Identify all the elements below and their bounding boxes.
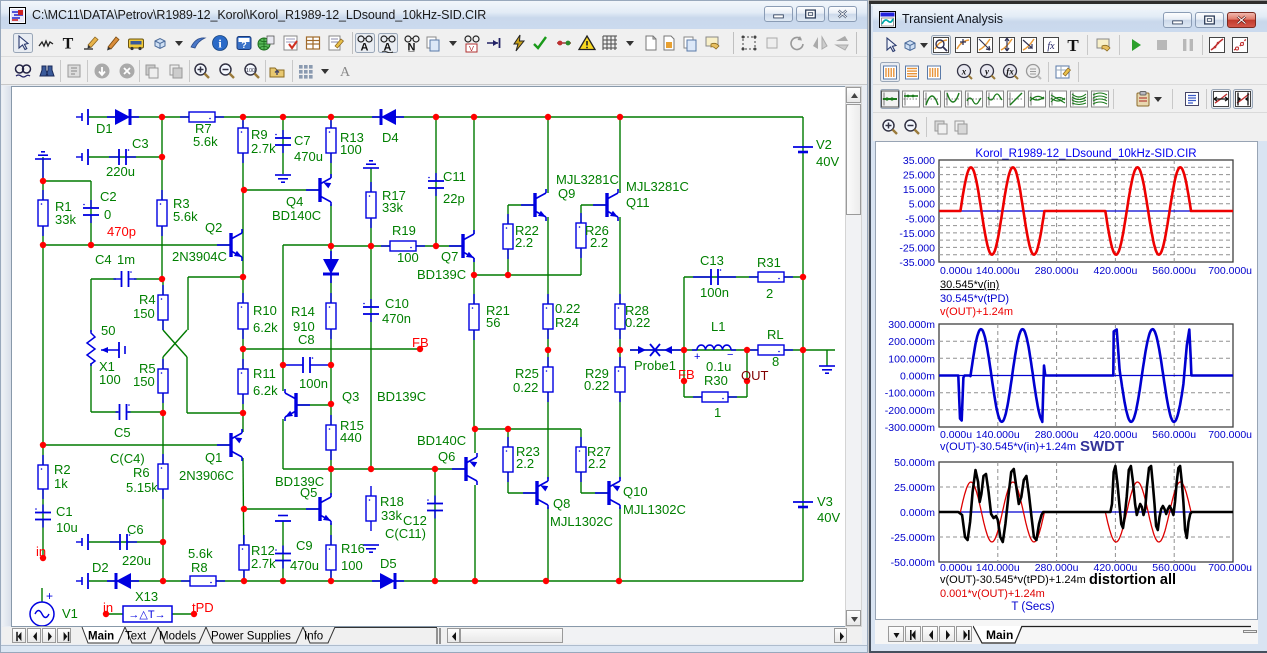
svg-text:BD140C: BD140C — [417, 433, 466, 448]
svg-text:→△T→: →△T→ — [128, 609, 165, 621]
svg-text:R11: R11 — [253, 366, 276, 381]
junction (474,117) — [471, 114, 477, 120]
label BD139C — [417, 267, 466, 282]
wire Q4 collector link — [283, 244, 331, 246]
label R26 — [585, 223, 609, 238]
capacitor C6 — [110, 534, 137, 550]
svg-text:C2: C2 — [100, 189, 117, 204]
wire R10 column — [242, 277, 244, 349]
svg-text:-5.000: -5.000 — [905, 213, 935, 225]
wire Q7 collector — [473, 117, 475, 234]
svg-text:R18: R18 — [380, 494, 404, 509]
label 100n — [700, 285, 729, 300]
svg-text:200.000m: 200.000m — [888, 336, 935, 348]
svg-text:280.000u: 280.000u — [1035, 429, 1079, 441]
junction (684,350) — [681, 347, 687, 353]
svg-text:BD139C: BD139C — [417, 267, 466, 282]
label R3 — [173, 196, 190, 211]
svg-text:140.000u: 140.000u — [976, 265, 1020, 277]
junction (747,381) — [744, 378, 750, 384]
svg-text:33k: 33k — [381, 508, 402, 523]
junction (331,581) — [328, 578, 334, 584]
svg-text:C7: C7 — [294, 133, 311, 148]
svg-text:140.000u: 140.000u — [976, 562, 1020, 574]
svg-text:0.000u: 0.000u — [940, 265, 972, 277]
label 2.7k — [251, 141, 276, 156]
battery terminal (C6 input) — [76, 534, 88, 550]
svg-text:0: 0 — [104, 207, 111, 222]
svg-text:C10: C10 — [385, 296, 409, 311]
label 470u — [294, 149, 323, 164]
junction (435,469) — [432, 466, 438, 472]
label Q1 — [205, 450, 222, 465]
junction (43,445) — [40, 442, 46, 448]
transistor Q8 — [523, 477, 548, 509]
label C8 — [298, 332, 315, 347]
junction (475,429) — [472, 426, 478, 432]
label Q5 — [300, 485, 317, 500]
svg-text:6.2k: 6.2k — [253, 383, 278, 398]
label 1m — [117, 252, 135, 267]
label 56 — [486, 315, 500, 330]
wire R5 bottom — [162, 357, 164, 413]
svg-text:v(OUT)-30.545*v(in)+1.24m: v(OUT)-30.545*v(in)+1.24m — [940, 441, 1076, 453]
svg-text:5.6k: 5.6k — [188, 546, 213, 561]
wire R1/C2 top link — [43, 180, 91, 182]
resistor R4 — [158, 285, 168, 330]
svg-text:50.000m: 50.000m — [894, 457, 935, 469]
label 0.22 — [625, 315, 650, 330]
svg-text:Q5: Q5 — [300, 485, 317, 500]
junction (163,542) — [160, 539, 166, 545]
label 100 — [397, 250, 419, 265]
right window: Transient Analysis — [869, 0, 1267, 653]
label C6 — [127, 522, 144, 537]
svg-text:MJL1302C: MJL1302C — [623, 502, 686, 517]
label Q10 — [623, 484, 648, 499]
svg-text:MJL3281C: MJL3281C — [626, 179, 689, 194]
resistor R26 — [576, 213, 586, 258]
wire Q11 collector — [619, 117, 621, 193]
diode D4 — [372, 109, 404, 125]
label R2 — [54, 462, 71, 477]
diode D5 — [372, 573, 404, 589]
svg-text:100: 100 — [397, 250, 419, 265]
label 2.2 — [588, 456, 606, 471]
label 33k — [55, 212, 76, 227]
junction (244,581) — [241, 578, 247, 584]
wire output row — [630, 349, 803, 351]
svg-text:470n: 470n — [382, 311, 411, 326]
ground (under R18) — [363, 545, 379, 552]
junction (371,246) — [368, 243, 374, 249]
svg-text:0.000m: 0.000m — [900, 371, 935, 383]
resistor R23 — [503, 437, 513, 482]
junction (331,246) — [328, 243, 334, 249]
wire R30 row — [684, 396, 747, 398]
wire 100n/Q3 column — [282, 245, 284, 391]
wire FB net — [243, 348, 420, 350]
junction (283,365) — [280, 362, 286, 368]
svg-text:100n: 100n — [700, 285, 729, 300]
wire cross diagonal a — [163, 330, 187, 357]
svg-text:C9: C9 — [296, 538, 313, 553]
svg-text:x: x — [961, 67, 967, 77]
node FB — [412, 335, 429, 350]
wire Q7 emitter stub — [473, 258, 475, 275]
junction (508,429) — [505, 426, 511, 432]
label 40V — [816, 154, 839, 169]
svg-text:+: + — [46, 589, 53, 603]
label Q7 — [441, 249, 458, 264]
junction (620,117) — [617, 114, 623, 120]
resistor R6 — [158, 454, 168, 499]
label 5.15k — [126, 480, 158, 495]
svg-text:2N3906C: 2N3906C — [179, 468, 234, 483]
svg-text:280.000u: 280.000u — [1035, 562, 1079, 574]
svg-text:R19: R19 — [392, 223, 416, 238]
label R27 — [587, 444, 611, 459]
label 6.2k — [253, 320, 278, 335]
svg-text:BD139C: BD139C — [377, 389, 426, 404]
svg-text:0.000u: 0.000u — [940, 562, 972, 574]
wire R3 column — [161, 117, 163, 279]
label 100 — [340, 142, 362, 157]
label Q6 — [438, 449, 455, 464]
probe Probe1 — [630, 344, 684, 356]
wire cross col upper — [187, 277, 189, 330]
label R15 — [340, 418, 364, 433]
svg-text:100: 100 — [99, 372, 121, 387]
label R22 — [515, 223, 539, 238]
svg-text:100: 100 — [246, 68, 255, 74]
svg-text:Korol_R1989-12_LDsound_10kHz-S: Korol_R1989-12_LDsound_10kHz-SID.CIR — [975, 148, 1196, 160]
junction (243,413) — [240, 410, 246, 416]
capacitor C4 — [114, 271, 137, 287]
wire Q9 collector — [547, 117, 549, 193]
wire right supply column — [802, 117, 804, 581]
label MJL1302C — [623, 502, 686, 517]
ground (above R17) — [363, 161, 379, 168]
wire Q10 collector — [619, 507, 621, 581]
transistor Q7 — [449, 230, 474, 262]
wire D3/R14 column — [330, 246, 332, 404]
wire Q5 collector — [330, 469, 332, 495]
wire C9 column — [282, 521, 284, 581]
svg-text:440: 440 — [340, 430, 362, 445]
wire C2 column — [90, 181, 92, 245]
junction (162,157) — [159, 154, 165, 160]
diode D2 — [107, 573, 139, 589]
resistor R14 — [326, 293, 336, 339]
label 470n — [382, 311, 411, 326]
svg-text:10u: 10u — [56, 520, 78, 535]
wire R22 column — [507, 205, 509, 275]
svg-text:1m: 1m — [117, 252, 135, 267]
bottom tab row — [2, 627, 862, 644]
label 150 — [133, 374, 155, 389]
label C(C11) — [385, 526, 426, 541]
wire Q3 base — [296, 404, 331, 406]
resistor R19 — [381, 241, 425, 251]
svg-text:T: T — [1067, 36, 1079, 55]
transistor Q11 — [593, 189, 618, 221]
label C1 — [56, 504, 73, 519]
label 22p — [443, 191, 465, 206]
label Q9 — [558, 186, 575, 201]
svg-text:in: in — [36, 544, 46, 559]
svg-text:D1: D1 — [96, 121, 113, 136]
svg-text:-100.000m: -100.000m — [885, 388, 935, 400]
junction (546,581) — [543, 578, 549, 584]
resistor R15 — [326, 415, 336, 460]
label 100 — [341, 558, 363, 573]
svg-text:2.7k: 2.7k — [251, 556, 276, 571]
resistor R9 — [238, 118, 248, 163]
ground (right of RL) — [819, 366, 835, 373]
node in — [36, 544, 46, 559]
label C13 — [700, 253, 724, 268]
capacitor C7 — [275, 130, 291, 153]
svg-text:300.000m: 300.000m — [888, 319, 935, 331]
junction (43,181) — [40, 178, 46, 184]
svg-text:in: in — [103, 600, 113, 615]
battery terminal (D2 input) — [76, 573, 88, 589]
svg-text:-25.000: -25.000 — [899, 242, 935, 254]
capacitor C12 — [427, 496, 443, 519]
svg-text:40V: 40V — [817, 510, 840, 525]
svg-text:R14: R14 — [291, 304, 315, 319]
transistor Q3 — [285, 389, 310, 421]
junction (436,117) — [433, 114, 439, 120]
label R12 — [251, 543, 275, 558]
label 33k — [381, 508, 402, 523]
label 2.2 — [590, 235, 608, 250]
label 5.6k — [193, 134, 218, 149]
svg-text:0.22: 0.22 — [513, 380, 538, 395]
svg-text:-200.000m: -200.000m — [885, 405, 935, 417]
label MJL3281C — [556, 172, 619, 187]
label Q3 — [342, 389, 359, 404]
svg-text:v(OUT)+1.24m: v(OUT)+1.24m — [940, 306, 1013, 318]
label R30 — [704, 373, 728, 388]
junction (91,245) — [88, 242, 94, 248]
label C12 — [403, 513, 427, 528]
junction (243,277) — [240, 274, 246, 280]
svg-text:56: 56 — [486, 315, 500, 330]
svg-text:2.7k: 2.7k — [251, 141, 276, 156]
svg-text:N̲: N̲ — [407, 42, 415, 54]
wire R16 column — [330, 523, 332, 581]
svg-text:R24: R24 — [555, 315, 579, 330]
svg-text:R8: R8 — [191, 560, 208, 575]
resistor R7 — [180, 112, 224, 122]
svg-text:Probe1: Probe1 — [634, 358, 676, 373]
svg-text:D2: D2 — [92, 560, 109, 575]
wire C4 right lead — [134, 278, 162, 280]
svg-text:SWDT: SWDT — [1080, 438, 1124, 455]
label V3 — [817, 494, 833, 509]
label R8 — [191, 560, 208, 575]
label D2 — [92, 560, 109, 575]
label 5.6k — [188, 546, 213, 561]
resistor R8 — [181, 576, 225, 586]
label 150 — [133, 306, 155, 321]
label R17 — [382, 188, 406, 203]
label RL — [767, 327, 784, 342]
svg-text:C5: C5 — [114, 425, 131, 440]
label BD140C — [417, 433, 466, 448]
svg-text:5.15k: 5.15k — [126, 480, 158, 495]
junction (194,614) — [191, 611, 197, 617]
label R25 — [515, 366, 539, 381]
junction (243,117) — [240, 114, 246, 120]
resistor R1 — [38, 190, 48, 236]
junction (43,558) — [40, 555, 46, 561]
wire to right ground — [803, 349, 835, 351]
svg-text:2.2: 2.2 — [516, 456, 534, 471]
label C2 — [100, 189, 117, 204]
svg-text:100: 100 — [340, 142, 362, 157]
wire C3 row — [89, 156, 162, 158]
wire OUT node — [746, 350, 748, 397]
delay block X13 — [123, 606, 172, 622]
potentiometer X1 — [87, 330, 125, 366]
wire X13 left — [106, 613, 123, 615]
wire C13 left / FB node — [683, 277, 685, 397]
capacitor C3 — [109, 149, 136, 165]
label R24 — [555, 315, 579, 330]
wire V1 top lead — [41, 588, 43, 602]
junction (331,404) — [328, 401, 334, 407]
svg-text:+: + — [694, 351, 700, 363]
svg-text:fx: fx — [1047, 41, 1055, 52]
svg-text:1k: 1k — [54, 476, 68, 491]
label X13 — [135, 589, 158, 604]
label R10 — [253, 303, 277, 318]
junction (548,117) — [545, 114, 551, 120]
svg-text:V2: V2 — [816, 137, 832, 152]
capacitor C1 — [35, 505, 51, 528]
label 220u — [106, 164, 135, 179]
wire Q3 emitter — [282, 419, 284, 469]
junction (474,275) — [471, 272, 477, 278]
wire Q9 emitter / R24 — [547, 217, 549, 350]
svg-text:5.000: 5.000 — [909, 199, 935, 211]
svg-text:T: T — [63, 36, 74, 53]
svg-text:Q7: Q7 — [441, 249, 458, 264]
label Q2 — [205, 220, 222, 235]
label 8 — [772, 354, 779, 369]
svg-text:T (Secs): T (Secs) — [1011, 601, 1054, 613]
svg-text:Models: Models — [159, 631, 196, 643]
svg-text:A: A — [361, 42, 369, 54]
svg-text:0.000u: 0.000u — [940, 429, 972, 441]
junction (420,349) — [417, 346, 423, 352]
resistor R10 — [238, 293, 248, 339]
label 5.6k — [173, 209, 198, 224]
capacitor C5 — [116, 404, 131, 420]
label R14 — [291, 304, 315, 319]
svg-text:OUT: OUT — [741, 368, 769, 383]
wire Q2 base rail — [43, 244, 232, 246]
junction (436,246) — [433, 243, 439, 249]
resistor R18 — [366, 486, 376, 531]
svg-text:470u: 470u — [290, 558, 319, 573]
svg-text:-300.000m: -300.000m — [885, 422, 935, 434]
svg-text:0.22: 0.22 — [584, 378, 609, 393]
ground (above C9) — [275, 516, 291, 522]
svg-text:0.001*v(OUT)+1.24m: 0.001*v(OUT)+1.24m — [940, 588, 1045, 600]
svg-text:22p: 22p — [443, 191, 465, 206]
svg-text:FB: FB — [412, 335, 429, 350]
svg-text:0.22: 0.22 — [555, 301, 580, 316]
label R31 — [757, 255, 781, 270]
label L1 — [711, 319, 725, 334]
junction (371,469) — [368, 466, 374, 472]
transistor Q4 — [306, 174, 331, 206]
wire left column — [42, 157, 44, 558]
wire C4 to X1 — [90, 279, 92, 332]
transistor Q10 — [595, 477, 620, 509]
svg-text:-15.000: -15.000 — [899, 228, 935, 240]
wire R11 column — [242, 349, 244, 432]
wire Q2 emitter link — [188, 276, 243, 278]
node tPD — [192, 600, 214, 615]
junction (331,365) — [328, 362, 334, 368]
svg-text:Q9: Q9 — [558, 186, 575, 201]
label MJL3281C — [626, 179, 689, 194]
svg-text:5.6k: 5.6k — [173, 209, 198, 224]
label 2.7k — [251, 556, 276, 571]
svg-text:35.000: 35.000 — [903, 155, 935, 167]
label 1k — [54, 476, 68, 491]
label 440 — [340, 430, 362, 445]
svg-text:220u: 220u — [122, 553, 151, 568]
junction (548,350) — [545, 347, 551, 353]
label R4 — [139, 292, 156, 307]
wire R23 column — [507, 429, 509, 493]
ground (top left) — [35, 152, 51, 181]
label 2N3906C — [179, 468, 234, 483]
resistor R31 — [749, 272, 793, 282]
label 2.2 — [515, 235, 533, 250]
svg-text:Q1: Q1 — [205, 450, 222, 465]
resistor R13 — [326, 118, 336, 163]
wire Q8 collector — [547, 507, 549, 581]
wire C7 column — [282, 117, 284, 174]
junction (684,381) — [681, 378, 687, 384]
wire Q1 collector / R12 — [243, 458, 244, 581]
junction (331,469) — [328, 466, 334, 472]
wire R9/Q2 column — [242, 117, 244, 277]
svg-text:?: ? — [241, 40, 247, 50]
junction (106,614) — [103, 611, 109, 617]
label R1 — [55, 199, 72, 214]
wire R15 column — [330, 404, 332, 469]
svg-text:X13: X13 — [135, 589, 158, 604]
resistor R29 — [615, 357, 625, 402]
label R6 — [133, 465, 150, 480]
wire R21 column — [473, 275, 475, 429]
svg-text:R25: R25 — [515, 366, 539, 381]
wire Q4 base — [244, 189, 320, 191]
label 2N3904C — [172, 249, 227, 264]
label V2 — [816, 137, 832, 152]
label 50 — [101, 323, 115, 338]
resistor RL — [749, 345, 793, 355]
junction (747,350) — [744, 347, 750, 353]
